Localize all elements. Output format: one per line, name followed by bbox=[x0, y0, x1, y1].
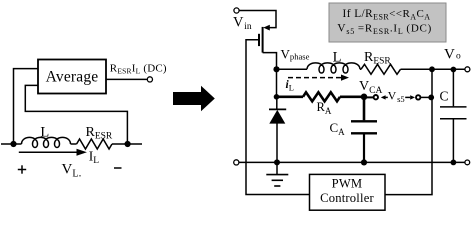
formula line 2 bbox=[337, 23, 432, 36]
formula line 1 bbox=[343, 8, 431, 22]
terminal: DC output bbox=[147, 77, 152, 82]
label L (right) bbox=[333, 50, 342, 66]
callout box bbox=[329, 3, 446, 42]
label V_phase bbox=[281, 47, 310, 62]
dashed current arrow i_L bbox=[288, 75, 349, 81]
wire bbox=[71, 143, 77, 145]
wire: to Vo bbox=[401, 68, 466, 70]
label R_ESR (left) bbox=[86, 125, 113, 142]
svg-text:Vo: Vo bbox=[444, 47, 461, 63]
label V_CA bbox=[359, 79, 382, 96]
label C_A bbox=[330, 120, 346, 137]
probe terminal right bbox=[416, 95, 420, 99]
resistor R_ESR (left) bbox=[77, 139, 112, 149]
node: V_CA bbox=[361, 94, 368, 101]
svg-text:Controller: Controller bbox=[320, 191, 374, 205]
inductor L (right) bbox=[307, 63, 360, 73]
wire: to diode bbox=[276, 97, 278, 110]
svg-text:RA: RA bbox=[317, 100, 332, 116]
node: right bbox=[125, 141, 131, 147]
inductor L (left) bbox=[22, 137, 71, 147]
wire: gate to PWM bbox=[246, 40, 310, 195]
wire: VCA to probe bbox=[364, 96, 374, 98]
node: C_A-rail bbox=[361, 159, 367, 165]
resistor R_A (thick) bbox=[277, 92, 365, 101]
label L (left) bbox=[40, 124, 49, 140]
resistor R_ESR (right) bbox=[361, 64, 401, 74]
svg-text:RESR: RESR bbox=[86, 125, 113, 142]
label V_in bbox=[233, 15, 252, 32]
transistor Q1 gate bar bbox=[258, 34, 260, 46]
svg-text:L: L bbox=[40, 124, 49, 140]
wire: Average lower input bbox=[25, 85, 127, 144]
svg-text:iL: iL bbox=[286, 79, 294, 93]
terminal: rail right bbox=[465, 160, 470, 165]
node: sense top bbox=[429, 66, 435, 72]
label V_L bbox=[62, 162, 82, 180]
node: left bbox=[10, 141, 16, 147]
capacitor C_A (thick) bbox=[351, 97, 377, 163]
wire: phase down to RA junction bbox=[276, 69, 278, 97]
svg-text:Average: Average bbox=[46, 69, 99, 86]
svg-text:RESRIL (DC): RESRIL (DC) bbox=[110, 63, 167, 76]
node: RA junction bbox=[274, 94, 280, 100]
svg-text:Vphase: Vphase bbox=[281, 47, 310, 62]
wire: left stub bbox=[1, 143, 22, 145]
svg-text:RESR: RESR bbox=[364, 50, 391, 67]
label R_A bbox=[317, 100, 332, 116]
wire bbox=[112, 143, 142, 145]
wire: phase to L bbox=[277, 68, 308, 70]
svg-text:VL.: VL. bbox=[62, 162, 82, 180]
wire: Q1 source to phase bbox=[263, 53, 277, 70]
svg-text:IL: IL bbox=[89, 148, 100, 166]
ground bbox=[266, 162, 288, 186]
wire: Vin to Q1 drain bbox=[239, 11, 276, 31]
terminal: Vo bbox=[465, 67, 470, 72]
label + bbox=[18, 165, 26, 173]
arrow left (V_s5) bbox=[381, 95, 388, 99]
label C bbox=[440, 89, 449, 104]
diode D1 bbox=[269, 109, 286, 123]
ground rail bbox=[239, 161, 465, 163]
current arrow I_L bbox=[19, 149, 87, 156]
wire: Average output bbox=[107, 78, 148, 80]
big transform arrow bbox=[173, 86, 215, 111]
probe terminal left bbox=[374, 95, 378, 99]
label V_s5 bbox=[388, 89, 405, 104]
node: C-rail bbox=[451, 160, 457, 166]
svg-text:CA: CA bbox=[330, 120, 346, 137]
wire: diode to rail bbox=[276, 123, 278, 162]
capacitor C bbox=[440, 69, 467, 162]
node: diode-rail bbox=[274, 159, 280, 165]
label i_L bbox=[286, 79, 294, 93]
svg-text:Vin: Vin bbox=[233, 15, 252, 32]
svg-text:PWM: PWM bbox=[332, 177, 363, 191]
label R_ESR I_L (DC) bbox=[110, 63, 167, 76]
wire: Average upper input bbox=[14, 69, 39, 144]
block: Average bbox=[38, 60, 106, 94]
arrow right (V_s5) bbox=[405, 95, 415, 99]
wire bbox=[360, 68, 361, 70]
wire: probe to sense line bbox=[420, 96, 432, 98]
terminal: rail left bbox=[234, 160, 239, 165]
svg-text:L: L bbox=[333, 50, 342, 66]
svg-text:Vs5: Vs5 bbox=[388, 89, 405, 104]
svg-text:VCA: VCA bbox=[359, 79, 382, 96]
terminal: Vin bbox=[234, 8, 239, 13]
label minus bbox=[114, 167, 122, 169]
node: phase bbox=[273, 66, 279, 72]
transistor Q1 channel bbox=[262, 27, 264, 53]
label I_L bbox=[89, 148, 100, 166]
label V_o bbox=[444, 47, 461, 63]
block: PWM Controller bbox=[310, 174, 386, 210]
svg-text:C: C bbox=[440, 89, 449, 104]
node: C top bbox=[451, 67, 457, 73]
wire: sense line to PWM bbox=[385, 69, 432, 194]
node: sense bbox=[428, 95, 434, 101]
label R_ESR (right) bbox=[364, 50, 391, 67]
